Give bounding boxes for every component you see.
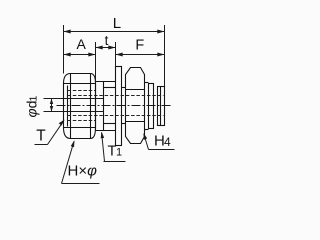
svg-text:L: L	[113, 15, 121, 32]
svg-text:φd: φd	[24, 101, 40, 118]
svg-text:F: F	[135, 37, 144, 53]
svg-text:T: T	[36, 128, 46, 145]
svg-text:t: t	[105, 33, 109, 48]
svg-text:4: 4	[164, 135, 171, 149]
svg-text:H×φ: H×φ	[68, 163, 98, 180]
svg-text:1: 1	[28, 96, 40, 102]
svg-text:A: A	[77, 36, 87, 52]
svg-text:1: 1	[116, 147, 122, 159]
